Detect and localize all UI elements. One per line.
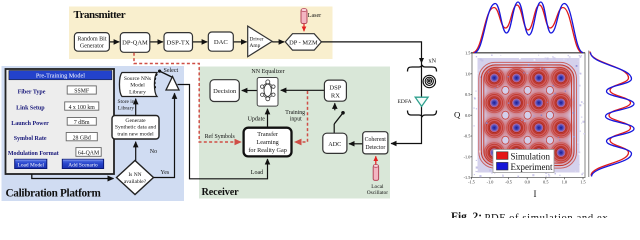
wire DP-MZM to fiber loop: [321, 42, 421, 144]
svg-text:Oscillator: Oscillator: [367, 190, 388, 196]
svg-text:1.5: 1.5: [465, 51, 470, 56]
right marginal PDF curve experiment: [591, 53, 635, 177]
laser (local oscillator): [373, 165, 378, 181]
svg-text:Model: Model: [130, 83, 145, 89]
switch node: [341, 111, 345, 115]
block Decision: [210, 80, 239, 102]
top marginal PDF curve simulation: [473, 5, 582, 53]
field Symbol Rate: [14, 133, 98, 143]
svg-text:7 dBm: 7 dBm: [74, 120, 90, 126]
loop bottom brace: [408, 111, 437, 118]
wire DAC to Driver Amp: [233, 41, 246, 43]
wire Update from transfer learning to NN equalizer: [267, 109, 269, 128]
select switch arm: [160, 71, 173, 77]
select buffer triangle: [166, 77, 179, 91]
svg-text:-1.5: -1.5: [464, 175, 471, 180]
amplifier Driver Amp: [248, 26, 273, 57]
svg-text:DSP: DSP: [329, 84, 341, 91]
svg-text:4 x 100 km: 4 x 100 km: [69, 105, 96, 111]
svg-text:Learning: Learning: [256, 139, 278, 146]
svg-text:DAC: DAC: [214, 39, 229, 46]
svg-text:Synthetic data and: Synthetic data and: [115, 125, 157, 131]
svg-text:EDFA: EDFA: [398, 99, 412, 105]
svg-text:Receiver: Receiver: [202, 187, 240, 198]
right marginal PDF curve simulation: [590, 52, 631, 176]
wire generate box to model library: [135, 99, 137, 116]
svg-text:Q: Q: [454, 109, 461, 119]
svg-text:0.0: 0.0: [525, 180, 530, 185]
svg-text:-1.0: -1.0: [487, 180, 494, 185]
arrowhead into loop: [419, 58, 424, 64]
switch arm: [334, 113, 343, 124]
constellation clusters: [484, 68, 570, 163]
svg-text:Ref Symbols: Ref Symbols: [205, 133, 236, 140]
legend box: [493, 150, 554, 173]
svg-text:-1.0: -1.0: [464, 154, 471, 159]
svg-text:DP-QAM: DP-QAM: [122, 40, 148, 47]
red dashed wire Training input tap to transfer learning: [295, 91, 308, 142]
svg-text:Transfer: Transfer: [257, 131, 278, 138]
svg-text:Coherent: Coherent: [365, 137, 387, 143]
block DP-QAM: [120, 33, 150, 53]
modulator DP-MZM: [285, 34, 321, 50]
stored-data shape Source NNs Model Library: [119, 73, 157, 97]
svg-text:0.5: 0.5: [543, 180, 548, 185]
switch stub arrow into DSP RX: [334, 103, 336, 110]
select switch alternate position arc: [155, 74, 157, 90]
wire DSP RX to NN equalizer: [281, 89, 325, 91]
laser (transmitter): [301, 9, 307, 24]
svg-text:Random Bit: Random Bit: [77, 37, 107, 43]
wire Load path from select to transfer learning: [178, 85, 268, 179]
field Fiber Type: [18, 86, 97, 96]
svg-text:train new model: train new model: [117, 131, 154, 137]
loop top brace: [408, 65, 437, 72]
svg-text:Fiber Type: Fiber Type: [18, 90, 46, 96]
svg-text:I: I: [534, 189, 537, 199]
svg-text:Link Setup: Link Setup: [16, 106, 45, 112]
in-plot blue speckle: [480, 64, 577, 170]
svg-text:Decision: Decision: [213, 88, 237, 95]
svg-text:Amp: Amp: [250, 43, 261, 49]
receiver background box: [199, 67, 390, 199]
density background field: [473, 55, 585, 178]
svg-text:Detector: Detector: [365, 145, 385, 151]
y axis tick labels: [464, 51, 471, 181]
svg-text:Laser: Laser: [308, 13, 321, 19]
constellation cluster halo field: [483, 67, 572, 164]
block DSP-TX: [164, 33, 193, 52]
svg-text:Load Model: Load Model: [18, 162, 45, 168]
calibration platform background box: [2, 66, 185, 201]
svg-text:Calibration Platform: Calibration Platform: [6, 188, 102, 200]
svg-text:available?: available?: [124, 179, 147, 185]
svg-text:DP - MZM: DP - MZM: [289, 39, 318, 46]
svg-text:1.5: 1.5: [580, 180, 585, 185]
svg-text:Modulation Format: Modulation Format: [8, 151, 59, 157]
svg-text:DSP-TX: DSP-TX: [167, 39, 190, 46]
svg-text:Generator: Generator: [80, 44, 104, 50]
wire ADC to switch: [333, 124, 335, 133]
merged outer contours: [479, 62, 577, 168]
svg-text:ADC: ADC: [328, 141, 341, 148]
svg-text:Source NNs: Source NNs: [124, 76, 151, 82]
right marginal PDF baseline: [588, 51, 590, 178]
svg-text:Library: Library: [118, 105, 134, 111]
svg-text:No: No: [150, 149, 157, 155]
pre-training model window: [6, 69, 115, 174]
inter-cluster saddle rings: [502, 86, 554, 144]
svg-text:1.0: 1.0: [562, 180, 567, 185]
svg-text:Pre-Training Model: Pre-Training Model: [36, 73, 85, 80]
top marginal PDF curve experiment: [475, 2, 584, 53]
svg-text:Store in: Store in: [118, 99, 135, 105]
local oscillator beam wire: [375, 156, 377, 165]
select switch node: [158, 70, 161, 73]
svg-text:xN: xN: [429, 58, 437, 65]
svg-text:0.5: 0.5: [465, 92, 470, 97]
svg-text:64-QAM: 64-QAM: [78, 151, 99, 157]
svg-text:Fig. 2:PDF of simulation and e: Fig. 2:PDF of simulation and ex: [451, 211, 608, 218]
wire No branch to generate box: [135, 142, 137, 161]
block ADC: [323, 133, 347, 153]
block Coherent Detector: [363, 132, 388, 154]
svg-text:Training: Training: [285, 110, 305, 116]
wire DSP-TX to DAC: [193, 41, 208, 43]
svg-text:input: input: [290, 117, 302, 123]
block Generate Synthetic data and train new model: [112, 116, 159, 140]
button Add Scenario: [62, 159, 103, 168]
svg-text:Load: Load: [251, 170, 263, 176]
svg-text:Launch Power: Launch Power: [11, 121, 49, 127]
decision diamond Is NN available: [117, 161, 154, 195]
wire Coherent Detector to ADC: [349, 143, 363, 145]
fiber coil: [423, 75, 435, 87]
svg-text:Add Scenario: Add Scenario: [68, 162, 98, 168]
red dashed wire Ref Symbols from DP-QAM to transfer learning: [134, 53, 241, 142]
field Link Setup: [16, 102, 99, 112]
svg-text:-1.5: -1.5: [468, 180, 475, 185]
svg-text:Symbol Rate: Symbol Rate: [14, 136, 47, 142]
svg-text:SSMF: SSMF: [74, 89, 90, 95]
svg-text:-0.5: -0.5: [464, 134, 471, 139]
svg-text:for Reality Gap: for Reality Gap: [248, 147, 287, 154]
wire NN equalizer to Decision: [242, 90, 257, 92]
svg-text:Local: Local: [371, 184, 384, 190]
svg-text:1.0: 1.0: [465, 71, 470, 76]
svg-text:Library: Library: [129, 89, 146, 95]
wire Yes branch to select triangle: [154, 93, 175, 177]
svg-text:-0.5: -0.5: [505, 180, 512, 185]
button Load Model: [15, 159, 47, 168]
block DAC: [208, 32, 233, 51]
field Launch Power: [11, 118, 96, 127]
block Random Bit Generator: [74, 33, 109, 52]
block DSP RX: [324, 80, 346, 101]
svg-text:Yes: Yes: [161, 170, 170, 176]
wire window to decision diamond: [32, 174, 114, 179]
svg-text:RX: RX: [331, 92, 340, 99]
wire Driver Amp to DP-MZM: [272, 41, 284, 43]
svg-text:Transmitter: Transmitter: [74, 9, 126, 21]
transmitter background box: [69, 7, 333, 60]
top marginal PDF baseline: [471, 52, 585, 54]
svg-text:0.0: 0.0: [465, 113, 470, 118]
x axis tick labels: [468, 180, 586, 185]
neural network icon U-NN: [257, 78, 278, 107]
svg-text:NN Equalizer: NN Equalizer: [251, 69, 284, 75]
figure 2 plot frame: [472, 53, 585, 178]
svg-text:Is NN: Is NN: [128, 172, 141, 178]
laser beam wire to DP-MZM: [303, 24, 305, 31]
svg-text:Simulation: Simulation: [511, 151, 551, 161]
svg-text:Update: Update: [248, 117, 266, 123]
field Modulation Format: [8, 148, 101, 158]
block Transfer Learning for Reality Gap: [244, 128, 292, 157]
svg-text:28 GBd: 28 GBd: [73, 135, 91, 141]
svg-text:Select: Select: [164, 68, 179, 74]
svg-text:Experiment: Experiment: [511, 162, 553, 172]
svg-text:Generate: Generate: [125, 118, 146, 124]
EDFA amplifier: [415, 97, 428, 106]
svg-text:Driver: Driver: [250, 37, 264, 43]
wire RBG to DP-QAM: [109, 41, 119, 43]
wire DP-QAM to DSP-TX: [150, 41, 163, 43]
